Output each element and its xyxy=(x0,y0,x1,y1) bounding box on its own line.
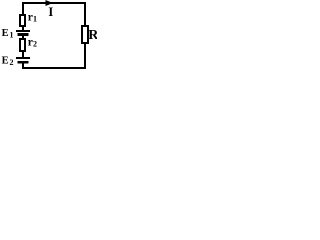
battery E2 long plate xyxy=(16,57,30,59)
svg-text:2: 2 xyxy=(10,58,14,67)
svg-text:R: R xyxy=(88,28,97,43)
wire stub E1 to r2 xyxy=(22,36,24,39)
wire bottom xyxy=(22,67,86,69)
svg-text:1: 1 xyxy=(10,31,14,40)
battery E1 short thick plate xyxy=(18,33,29,36)
svg-text:2: 2 xyxy=(33,40,37,49)
resistor r2 box xyxy=(19,38,26,52)
wire stub r1 to E1 xyxy=(22,27,24,30)
svg-text:1: 1 xyxy=(33,15,37,24)
battery E2 short thick plate xyxy=(18,61,29,64)
wire left vertical (top) xyxy=(22,2,24,14)
resistor r1 box xyxy=(19,14,26,27)
wire right vertical (bottom) xyxy=(84,44,86,69)
resistor R box xyxy=(81,25,89,44)
wire stub r2 to E2 xyxy=(22,52,24,57)
svg-text:E: E xyxy=(2,56,9,67)
svg-text:I: I xyxy=(48,5,53,19)
wire top xyxy=(22,2,86,4)
wire left vertical (bottom) xyxy=(22,64,24,70)
wire right vertical (top) xyxy=(84,2,86,25)
svg-text:E: E xyxy=(2,28,9,39)
current arrow head xyxy=(46,0,54,6)
battery E1 long plate xyxy=(16,30,30,32)
